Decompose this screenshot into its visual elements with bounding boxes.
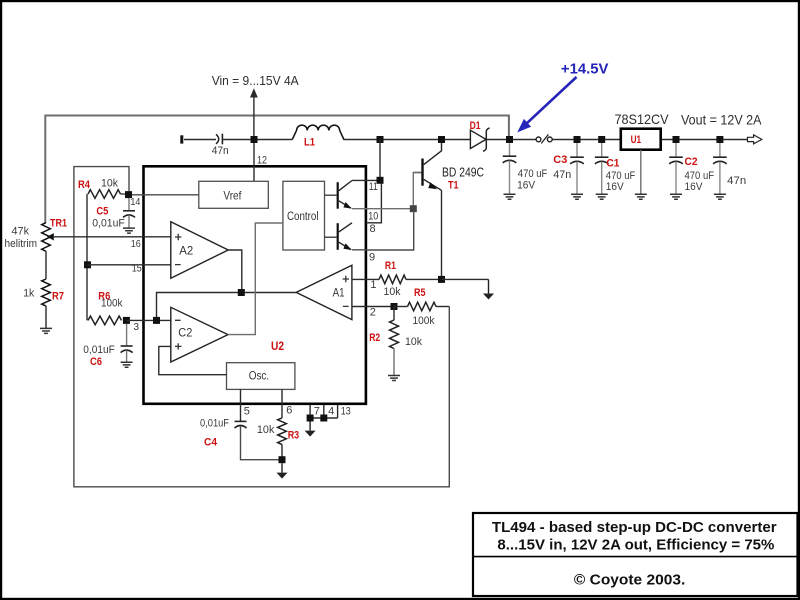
svg-text:© Coyote 2003.: © Coyote 2003. [574,573,685,589]
wire pin 10 (to T1 base) [352,173,421,223]
op-amp A1 (points left) [296,265,352,319]
node junction pin2/R2/R5 [391,303,398,310]
svg-text:470 uF: 470 uF [685,170,715,182]
node junction pin 4 [320,415,327,422]
svg-text:10k: 10k [101,178,118,190]
wire U1 ground pin [640,150,642,194]
svg-text:8...15V in, 12V 2A out, Effici: 8...15V in, 12V 2A out, Efficiency = 75% [497,538,774,554]
switch (on/off) [536,134,552,143]
resistor R4 10k [78,178,199,199]
node junction output 47n [716,136,723,143]
svg-text:47n: 47n [553,169,571,181]
wire R4-R6 left link [86,194,88,320]
svg-text:10k: 10k [257,424,275,436]
svg-text:47n: 47n [212,145,229,157]
svg-text:0,01uF: 0,01uF [83,344,115,356]
capacitor C1 470uF/16V [595,143,636,194]
svg-text:100k: 100k [413,315,435,327]
ground (output 47n) [714,194,726,199]
potentiometer TR1 47k helitrim [5,218,171,252]
op-amp IC U2 TL494 outline [144,166,366,403]
svg-text:D1: D1 [470,120,481,132]
node junction A2out/A1 [238,289,245,296]
resistor R6 100k [88,290,123,324]
svg-text:16V: 16V [606,181,625,193]
svg-text:13: 13 [341,406,351,418]
wire pin 12 (Vcc to Vref) [254,143,267,181]
inductor L1 [292,125,344,148]
svg-text:L1: L1 [304,136,315,148]
capacitor 47n (output) [713,143,746,194]
wire main top rail [184,139,748,141]
svg-text:Vin = 9...15V 4A: Vin = 9...15V 4A [212,74,300,88]
capacitor C4 0,01uF [200,417,282,459]
svg-text:C2: C2 [178,325,192,339]
node junction R6/C6/pin3 [123,317,130,324]
node junction pin3 internal [153,317,160,324]
capacitor C6 0,01uF [83,324,132,368]
comparator C2 (error amp) [171,307,228,362]
node junction rail/collector-riser [377,136,384,143]
svg-text:TR1: TR1 [50,218,67,230]
title box [473,513,798,596]
ground (C6) [121,362,133,367]
wire TR1 bottom to R7 [45,251,47,279]
svg-text:15: 15 [132,263,142,274]
node junction pin11/pin8 [377,177,384,184]
wire pin 16 label [131,239,141,250]
transistor T1 BD249C [414,143,484,192]
resistor R2 10k [369,307,422,376]
svg-text:78S12CV: 78S12CV [615,111,670,127]
svg-text:C3: C3 [553,154,567,166]
svg-text:1k: 1k [23,288,34,300]
ground (C5) [123,228,135,233]
block Osc [227,363,295,390]
wire gray feedback top rail (output node to TR1) [45,116,509,223]
svg-text:helitrim: helitrim [5,238,38,250]
resistor R3 10k [257,418,299,460]
svg-text:A2: A2 [179,243,193,257]
svg-text:100k: 100k [101,298,123,310]
wire T1 emitter down [441,190,443,279]
svg-text:8: 8 [370,223,376,235]
svg-text:R1: R1 [385,260,396,272]
ground (470uF cap) [504,194,516,199]
Vin arrow [250,88,258,139]
svg-text:U2: U2 [271,339,284,353]
wire pin 14 label [130,197,140,208]
svg-text:R3: R3 [288,429,300,441]
svg-text:10k: 10k [384,286,401,298]
svg-text:Vref: Vref [223,189,242,203]
open wire end terminal (input) [180,135,183,143]
svg-text:0,01uF: 0,01uF [200,417,229,429]
node junction pin14/R4/C5 [125,191,132,198]
svg-text:12: 12 [257,155,267,167]
wire C2 plus input to Osc [159,346,227,374]
svg-text:Control: Control [287,211,319,223]
regulator U1 78S12CV [615,111,670,150]
wire pin 3 [126,320,170,333]
diode D1 (Schottky) [470,120,490,151]
svg-text:Vout = 12V 2A: Vout = 12V 2A [681,113,762,128]
capacitor C2 470uF/16V [669,143,714,194]
transistor Q1 (IC output, pins 11/10) [325,181,353,209]
svg-text:R5: R5 [414,287,426,299]
node junction rail/T1 collector [438,136,445,143]
ground (T1 emitter, arrow style) [483,279,494,299]
node junction pin15/R4R6 link [84,261,91,268]
svg-text:T1: T1 [448,180,459,192]
svg-text:R4: R4 [78,179,91,191]
ground (pins 7/4/13, arrow style) [305,422,316,437]
svg-text:U1: U1 [631,134,642,146]
ground (C3) [571,194,583,199]
capacitor 470uF/16V (at +14.5V node) [503,143,548,194]
svg-text:16V: 16V [517,180,536,192]
svg-text:C4: C4 [204,436,218,448]
transistor Q2 (IC output, pins 8/9) [325,223,353,250]
svg-text:C1: C1 [606,158,619,170]
wire C2 output to Control [228,223,283,335]
wire feedback loop (Vref node to R5) [74,167,449,487]
svg-text:470 uF: 470 uF [606,170,636,182]
output arrow terminal [748,135,762,144]
ground (U1) [635,194,647,199]
wire pin 6 (Osc to R3) [282,389,292,418]
node junction pin 7 [307,415,314,422]
resistor R7 1k [23,279,64,328]
node junction pin10/pin9 (T1 base node) [410,205,417,212]
wire pin 1 [352,279,379,291]
wire pin 15 [88,263,171,274]
node junction C1 [598,136,605,143]
wire A1 input rail [157,293,297,321]
svg-text:10k: 10k [405,336,422,348]
svg-text:R7: R7 [52,290,64,302]
resistor R5 100k [394,287,449,327]
svg-text:9: 9 [369,251,375,263]
node junction T1 emitter / R1 [438,276,445,283]
node junction C4/R3 [279,456,286,463]
resistor R1 10k [379,260,442,298]
svg-text:14: 14 [130,197,140,208]
op-amp A2 [171,222,228,278]
svg-text:16V: 16V [685,181,704,193]
capacitor C5 0,01uF [92,198,135,229]
svg-text:C5: C5 [96,206,108,218]
svg-text:470 uF: 470 uF [518,168,548,180]
wire pin 8 riser [366,184,381,235]
block Vref [199,181,268,208]
node junction rail/Vin/pin12 [251,136,258,143]
svg-text:11: 11 [369,181,378,193]
block Control [283,181,325,250]
svg-text:47k: 47k [12,226,30,238]
svg-text:A1: A1 [333,285,345,299]
svg-text:+14.5V: +14.5V [561,61,609,77]
node Vout label [681,113,762,128]
wire pins 7/4/13 stubs [310,405,351,418]
wire pin 2 [352,306,394,318]
ground (C4/R3, arrow style) [277,463,288,478]
wire pin 9 [352,212,414,263]
node +14.5V junction [506,136,513,143]
svg-text:R2: R2 [369,332,380,344]
svg-text:TL494 - based step-up DC-DC co: TL494 - based step-up DC-DC converter [492,520,777,536]
svg-text:1: 1 [370,279,376,291]
svg-text:BD 249C: BD 249C [442,166,484,180]
svg-text:3: 3 [134,322,140,333]
svg-text:4: 4 [328,406,334,418]
svg-text:6: 6 [286,405,292,417]
node Vin label [212,74,300,88]
node junction C2 [673,136,680,143]
wire A2 output to A1 input node [228,250,242,293]
wire collectors riser (pins 11+8 to rail) [379,140,381,181]
svg-text:C6: C6 [90,356,102,368]
wire pin 5 (Osc to C4) [241,389,250,421]
wire pin 11 [352,180,380,193]
ground (C1) [596,194,608,199]
svg-text:C2: C2 [685,156,698,168]
capacitor C3 47n [553,143,584,194]
+14.5V blue annotation [517,61,608,132]
svg-text:47n: 47n [727,175,746,187]
svg-text:10: 10 [368,211,378,223]
svg-text:Osc.: Osc. [249,369,270,383]
ground (R2) [388,376,400,381]
svg-text:0,01uF: 0,01uF [92,217,125,229]
capacitor 47n (series input cap) [212,134,229,158]
wire emitter node to ground [442,278,489,280]
ground (R7) [40,328,52,333]
svg-text:2: 2 [370,306,376,318]
ground (C2) [670,194,682,199]
svg-text:16: 16 [131,239,141,250]
svg-text:5: 5 [244,406,250,418]
svg-text:7: 7 [314,406,320,418]
node junction C3 [574,136,581,143]
